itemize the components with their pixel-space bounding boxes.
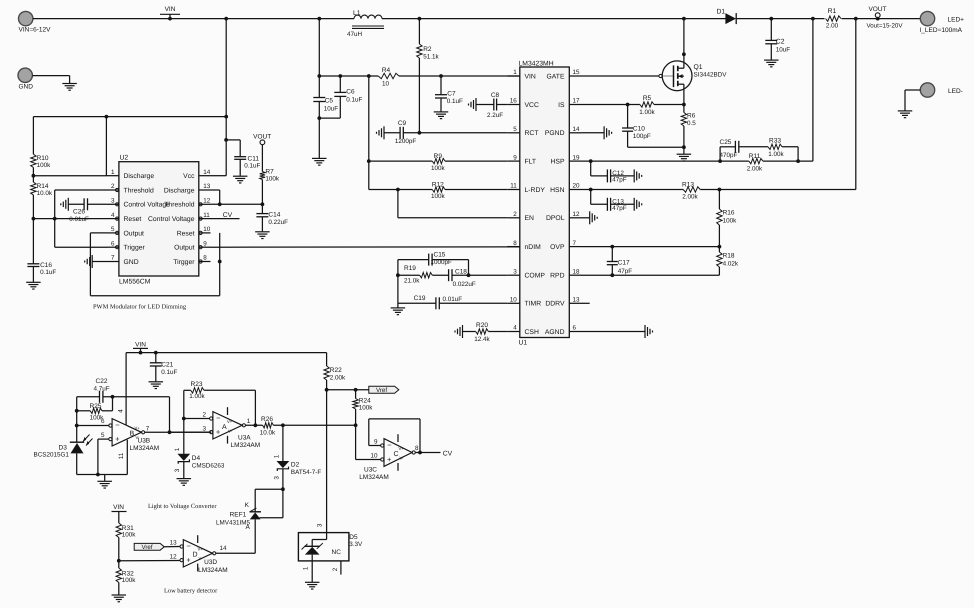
- svg-text:−: −: [387, 441, 392, 450]
- resistor R5: [639, 95, 655, 116]
- svg-text:6: 6: [101, 418, 105, 425]
- svg-text:Discharge: Discharge: [124, 173, 155, 180]
- ground LED-: [898, 111, 913, 118]
- resistor R10: [31, 154, 51, 169]
- ground C11: [233, 176, 248, 183]
- svg-text:C5: C5: [325, 97, 334, 104]
- svg-text:C7: C7: [447, 90, 456, 97]
- svg-text:100pF: 100pF: [633, 133, 651, 140]
- ground C16: [26, 282, 41, 289]
- svg-text:U3C: U3C: [364, 466, 377, 473]
- svg-text:GATE: GATE: [546, 73, 564, 80]
- op-amp U3B: [101, 418, 159, 452]
- svg-text:2: 2: [513, 211, 517, 218]
- caption low battery: [164, 588, 218, 595]
- wire R10-R14: [32, 168, 36, 183]
- svg-text:LMV431IM5: LMV431IM5: [216, 519, 250, 526]
- svg-text:2.00k: 2.00k: [747, 165, 763, 172]
- svg-text:V+: V+: [227, 419, 233, 424]
- svg-text:51.1k: 51.1k: [423, 54, 439, 61]
- svg-text:−: −: [187, 542, 192, 551]
- svg-text:47uH: 47uH: [347, 31, 363, 38]
- op IC U1 box: [519, 61, 570, 347]
- svg-text:C21: C21: [161, 361, 173, 368]
- wire FLT: [369, 160, 508, 162]
- svg-text:8: 8: [203, 255, 207, 262]
- svg-text:9: 9: [513, 154, 517, 161]
- diode D2: [273, 425, 321, 491]
- diode D4: [174, 447, 225, 478]
- svg-text:3: 3: [317, 523, 324, 527]
- svg-text:A: A: [222, 424, 227, 431]
- svg-text:R4: R4: [382, 67, 391, 74]
- svg-text:2.2uF: 2.2uF: [487, 112, 503, 119]
- svg-text:+: +: [186, 556, 191, 565]
- power flag VIN2: [133, 341, 148, 352]
- capacitor C21: [150, 353, 178, 382]
- svg-text:Output: Output: [124, 230, 145, 237]
- resistor R33: [768, 138, 798, 162]
- resistor R18: [717, 247, 739, 276]
- capacitor C16: [27, 262, 56, 282]
- svg-text:LM324AM: LM324AM: [130, 445, 160, 452]
- wire HSN: [582, 19, 856, 192]
- svg-text:CV: CV: [443, 450, 453, 457]
- svg-text:LM3423MH: LM3423MH: [519, 61, 554, 68]
- svg-text:RCT: RCT: [525, 130, 539, 137]
- wire EN: [398, 190, 507, 218]
- ground C12: [634, 169, 642, 182]
- svg-text:12: 12: [203, 198, 211, 205]
- pin11 U3B: [118, 440, 127, 475]
- svg-text:Trigger: Trigger: [124, 245, 146, 252]
- svg-text:18: 18: [573, 268, 581, 275]
- svg-text:K: K: [245, 502, 250, 509]
- svg-text:1: 1: [303, 566, 310, 570]
- svg-text:Reset: Reset: [177, 230, 195, 237]
- svg-text:R25: R25: [90, 403, 102, 410]
- svg-text:9: 9: [203, 240, 207, 247]
- svg-text:1000pF: 1000pF: [431, 259, 453, 266]
- svg-text:470pF: 470pF: [720, 152, 738, 159]
- op IC U2 pins: [107, 169, 211, 266]
- svg-text:7: 7: [111, 255, 115, 262]
- svg-text:FLT: FLT: [525, 159, 537, 166]
- svg-text:100k: 100k: [37, 162, 52, 169]
- svg-text:Control Voltage: Control Voltage: [148, 216, 195, 223]
- svg-text:R18: R18: [723, 253, 735, 260]
- capacitor C12: [591, 161, 635, 184]
- svg-text:U2: U2: [120, 155, 129, 162]
- svg-text:2.00k: 2.00k: [330, 374, 346, 381]
- svg-text:6: 6: [111, 240, 115, 247]
- wire R32 gnd: [118, 583, 120, 595]
- svg-text:7: 7: [573, 240, 577, 247]
- svg-text:Output: Output: [174, 245, 195, 252]
- svg-text:C15: C15: [434, 251, 446, 258]
- svg-text:Control Voltage: Control Voltage: [124, 202, 171, 209]
- svg-text:GND: GND: [19, 84, 34, 91]
- ground C5 C6: [312, 158, 327, 165]
- capacitor C9: [384, 120, 507, 145]
- svg-text:10: 10: [370, 452, 378, 459]
- svg-text:Reset: Reset: [124, 216, 142, 223]
- svg-text:B: B: [130, 431, 135, 438]
- capacitor C17: [607, 247, 632, 276]
- wire nDIM: [211, 246, 520, 248]
- svg-text:Discharge: Discharge: [164, 187, 195, 194]
- svg-text:100k: 100k: [265, 176, 280, 183]
- terminal LED-: [920, 83, 963, 97]
- svg-text:14: 14: [203, 169, 211, 176]
- capacitor C5: [313, 97, 338, 158]
- wire top rail VIN: [33, 18, 920, 20]
- wire pin12: [119, 560, 180, 562]
- svg-text:1: 1: [273, 454, 280, 458]
- svg-text:3: 3: [202, 425, 206, 432]
- svg-text:COMP: COMP: [525, 273, 546, 280]
- svg-text:12.4k: 12.4k: [474, 336, 490, 343]
- wire pin2-pin6 U2: [55, 190, 107, 247]
- wire R14-C16: [32, 195, 36, 264]
- wire COMP net: [396, 260, 507, 308]
- svg-text:10.0k: 10.0k: [37, 190, 53, 197]
- net VOUT 556: [253, 134, 271, 172]
- node R2 top: [418, 17, 422, 21]
- wire U3C in+: [356, 425, 381, 459]
- svg-text:4: 4: [111, 212, 115, 219]
- svg-text:CV: CV: [223, 212, 233, 219]
- svg-text:47pF: 47pF: [612, 205, 627, 212]
- capacitor C26: [68, 198, 107, 223]
- svg-text:0.1uF: 0.1uF: [161, 369, 177, 376]
- svg-text:20: 20: [573, 183, 581, 190]
- resistor R16: [717, 190, 737, 247]
- svg-text:Threshold: Threshold: [124, 187, 154, 194]
- op IC U2 box: [119, 155, 199, 286]
- capacitor C25: [720, 139, 769, 161]
- svg-text:V+: V+: [135, 426, 141, 431]
- svg-text:EN: EN: [525, 215, 535, 222]
- svg-text:3: 3: [273, 476, 280, 480]
- svg-text:0.022uF: 0.022uF: [453, 281, 476, 288]
- resistor R26: [260, 416, 276, 436]
- svg-text:IS: IS: [558, 102, 565, 109]
- svg-text:0.1uF: 0.1uF: [447, 98, 463, 105]
- svg-text:12: 12: [170, 554, 178, 561]
- svg-text:U3D: U3D: [204, 559, 217, 566]
- wire pin14 Vcc: [211, 19, 229, 176]
- svg-text:0.1uF: 0.1uF: [244, 162, 260, 169]
- svg-text:D2: D2: [291, 462, 300, 469]
- wire U3B in+: [98, 439, 109, 474]
- svg-text:14: 14: [573, 126, 581, 133]
- svg-text:CSH: CSH: [525, 329, 539, 336]
- svg-text:−: −: [216, 414, 221, 423]
- diode D1: [717, 9, 737, 25]
- transistor Q1: [662, 19, 727, 105]
- svg-text:1.00k: 1.00k: [639, 109, 655, 116]
- svg-text:16: 16: [510, 98, 518, 105]
- reference REF1: [216, 489, 283, 553]
- ground C14: [255, 232, 270, 239]
- svg-text:C22: C22: [96, 378, 108, 385]
- capacitor C15: [429, 251, 452, 266]
- svg-text:0.01uF: 0.01uF: [443, 296, 463, 303]
- capacitor C18: [449, 268, 476, 288]
- svg-text:VCC: VCC: [525, 102, 539, 109]
- wire U3C feedback: [369, 419, 422, 455]
- svg-text:D: D: [193, 552, 198, 559]
- ground DPOL: [582, 211, 598, 224]
- svg-text:R9: R9: [434, 153, 443, 160]
- svg-text:Vref: Vref: [141, 544, 152, 551]
- label C8: [487, 92, 503, 119]
- svg-text:HSP: HSP: [551, 159, 565, 166]
- svg-text:DPOL: DPOL: [546, 215, 565, 222]
- svg-text:C9: C9: [398, 120, 407, 127]
- svg-text:R33: R33: [769, 138, 781, 145]
- svg-text:10: 10: [382, 80, 390, 87]
- capacitor C22: [93, 378, 109, 403]
- svg-text:TIMR: TIMR: [525, 301, 542, 308]
- resistor R31: [116, 523, 136, 539]
- wire pin1 U2: [33, 175, 107, 177]
- svg-text:5: 5: [111, 226, 115, 233]
- capacitor C2: [765, 19, 790, 60]
- svg-text:U3A: U3A: [238, 434, 251, 441]
- svg-text:8: 8: [415, 445, 419, 452]
- wire GATE: [582, 74, 673, 77]
- svg-text:U1: U1: [519, 339, 528, 346]
- svg-text:1: 1: [247, 418, 251, 425]
- svg-text:17: 17: [573, 98, 581, 105]
- svg-text:3.3V: 3.3V: [349, 541, 363, 548]
- net flag Vref: [369, 386, 399, 394]
- svg-text:+: +: [216, 428, 221, 437]
- svg-text:HSN: HSN: [550, 187, 564, 194]
- wire VIN2 down: [325, 353, 329, 533]
- svg-text:C14: C14: [268, 212, 280, 219]
- svg-text:4: 4: [513, 325, 517, 332]
- svg-text:C18: C18: [455, 268, 467, 275]
- svg-text:V-: V-: [199, 556, 204, 561]
- svg-text:nDIM: nDIM: [525, 244, 542, 251]
- svg-text:V+: V+: [399, 446, 405, 451]
- op-amp U3D: [170, 535, 228, 574]
- svg-text:REF1: REF1: [230, 511, 247, 518]
- wire pin13-pin12: [211, 190, 222, 206]
- svg-text:D5: D5: [349, 534, 358, 541]
- svg-text:1200pF: 1200pF: [395, 138, 417, 145]
- node x319: [317, 17, 321, 21]
- resistor R20: [463, 322, 508, 343]
- svg-text:11: 11: [510, 183, 517, 190]
- wire pin12 node: [211, 202, 265, 206]
- svg-text:−: −: [115, 421, 120, 430]
- svg-text:C25: C25: [720, 139, 732, 146]
- wire OVP: [582, 245, 722, 249]
- wire FLT vert: [367, 76, 371, 190]
- resistor R9: [431, 153, 446, 172]
- svg-text:1: 1: [513, 69, 517, 76]
- svg-text:100k: 100k: [723, 217, 738, 224]
- node Q1 drain rail: [682, 17, 686, 21]
- svg-text:L-RDY: L-RDY: [525, 187, 546, 194]
- wire R4 rail: [319, 74, 520, 78]
- svg-text:D3: D3: [59, 444, 68, 451]
- wire U3D out: [216, 552, 255, 554]
- net VOUT: [867, 6, 904, 30]
- svg-text:LM324AM: LM324AM: [359, 474, 389, 481]
- wire U3A in-: [182, 417, 210, 421]
- ground CSH R20: [455, 325, 463, 338]
- resistor R32: [116, 568, 136, 584]
- svg-text:6: 6: [573, 325, 577, 332]
- svg-text:Vcc: Vcc: [183, 173, 195, 180]
- svg-text:R16: R16: [723, 210, 735, 217]
- resistor R7: [260, 169, 280, 183]
- svg-text:100k: 100k: [431, 165, 446, 172]
- svg-text:VIN: VIN: [135, 341, 146, 348]
- wire IS: [582, 103, 686, 107]
- node VIN tap: [168, 17, 172, 21]
- svg-text:+: +: [115, 435, 120, 444]
- wire R31-R32: [117, 538, 121, 569]
- wire U3A in+: [170, 431, 212, 433]
- svg-text:19: 19: [573, 154, 581, 161]
- svg-text:R26: R26: [261, 416, 273, 423]
- svg-text:10.0k: 10.0k: [260, 429, 276, 436]
- terminal GND: [18, 68, 33, 90]
- wire D3 bottom: [77, 453, 128, 476]
- svg-text:BCS2015G1: BCS2015G1: [34, 451, 70, 458]
- svg-text:R23: R23: [191, 381, 203, 388]
- svg-text:14: 14: [220, 545, 228, 552]
- svg-text:LM324AM: LM324AM: [231, 442, 261, 449]
- terminal VIN=6-12V: [19, 11, 52, 33]
- svg-text:13: 13: [170, 540, 178, 547]
- wire C22 top: [77, 395, 170, 399]
- zener D5: [298, 523, 363, 582]
- ground PGND: [582, 126, 612, 139]
- svg-text:R2: R2: [423, 46, 432, 53]
- svg-text:VIN=6-12V: VIN=6-12V: [19, 26, 52, 33]
- svg-text:C6: C6: [346, 88, 355, 95]
- svg-text:R12: R12: [432, 182, 444, 189]
- svg-text:D4: D4: [192, 455, 201, 462]
- ground Q1 source: [677, 147, 692, 161]
- svg-text:C19: C19: [414, 295, 426, 302]
- svg-text:11: 11: [118, 452, 125, 459]
- svg-text:C11: C11: [248, 155, 260, 162]
- wire LED-: [905, 90, 920, 111]
- wire HSP: [582, 19, 813, 163]
- svg-text:BAT54-7-F: BAT54-7-F: [291, 469, 321, 476]
- svg-text:5: 5: [513, 126, 517, 133]
- net flag Vref2: [134, 543, 164, 551]
- wire RPD: [582, 273, 720, 277]
- svg-text:R24: R24: [359, 397, 371, 404]
- svg-text:3: 3: [111, 198, 115, 205]
- svg-text:VOUT: VOUT: [253, 134, 271, 141]
- resistor R19: [404, 265, 432, 284]
- svg-text:47pF: 47pF: [618, 268, 633, 275]
- wire C5 branch: [317, 19, 321, 98]
- ground U2 pin7: [85, 255, 107, 268]
- svg-text:10: 10: [510, 297, 518, 304]
- svg-text:NC: NC: [332, 549, 342, 556]
- svg-text:U3B: U3B: [138, 437, 151, 444]
- svg-text:LM556CM: LM556CM: [119, 278, 151, 285]
- svg-text:15: 15: [573, 69, 581, 76]
- capacitor C7: [435, 76, 463, 112]
- svg-text:11: 11: [203, 212, 210, 219]
- svg-text:D1: D1: [717, 9, 726, 16]
- svg-text:I_LED=100mA: I_LED=100mA: [920, 27, 963, 34]
- terminal LED+: [920, 11, 965, 33]
- capacitor C13: [591, 190, 635, 213]
- svg-text:R10: R10: [37, 155, 49, 162]
- wire 556 Vcc top: [33, 115, 228, 176]
- svg-text:L1: L1: [353, 10, 361, 17]
- resistor R13: [682, 182, 700, 201]
- svg-text:AGND: AGND: [545, 329, 565, 336]
- svg-text:Low battery detector: Low battery detector: [164, 588, 218, 595]
- ground D5: [305, 582, 320, 589]
- svg-text:1: 1: [111, 169, 115, 176]
- resistor R22: [324, 366, 346, 381]
- ground U2 pin3: [61, 198, 69, 211]
- op-amp U3A: [202, 407, 260, 449]
- svg-text:VIN: VIN: [525, 73, 536, 80]
- svg-text:100k: 100k: [359, 404, 374, 411]
- svg-text:4.02k: 4.02k: [723, 261, 739, 268]
- svg-text:OVP: OVP: [550, 244, 565, 251]
- ground C21: [149, 382, 164, 389]
- svg-text:R11: R11: [749, 153, 761, 160]
- svg-text:R13: R13: [682, 182, 694, 189]
- svg-text:V-: V-: [400, 456, 405, 461]
- svg-text:5: 5: [101, 432, 105, 439]
- svg-text:R19: R19: [404, 265, 416, 272]
- resistor R25: [77, 397, 113, 422]
- svg-text:+: +: [387, 455, 392, 464]
- svg-text:C2: C2: [776, 39, 785, 46]
- svg-text:3: 3: [513, 268, 517, 275]
- capacitor C10: [622, 105, 686, 150]
- svg-text:VOUT: VOUT: [868, 6, 886, 13]
- svg-text:R5: R5: [643, 95, 652, 102]
- svg-text:0.5: 0.5: [687, 120, 696, 127]
- resistor R1: [826, 8, 842, 29]
- pin4 label U3B: [117, 409, 124, 413]
- op IC U1 pins: [507, 69, 581, 336]
- svg-text:3: 3: [174, 468, 181, 472]
- svg-text:PWM Modulator for LED Dimming: PWM Modulator for LED Dimming: [93, 303, 187, 310]
- svg-text:C: C: [394, 451, 399, 458]
- svg-text:13: 13: [573, 297, 581, 304]
- wire U3B in-: [77, 425, 109, 427]
- svg-text:100k: 100k: [122, 577, 137, 584]
- capacitor C11: [226, 140, 260, 176]
- resistor R23: [184, 381, 256, 454]
- svg-text:Vout=15-20V: Vout=15-20V: [867, 23, 904, 30]
- svg-text:9: 9: [374, 438, 378, 445]
- wire VIN2 rail: [126, 351, 327, 426]
- svg-text:C8: C8: [491, 92, 500, 99]
- svg-text:0.1uF: 0.1uF: [346, 97, 362, 104]
